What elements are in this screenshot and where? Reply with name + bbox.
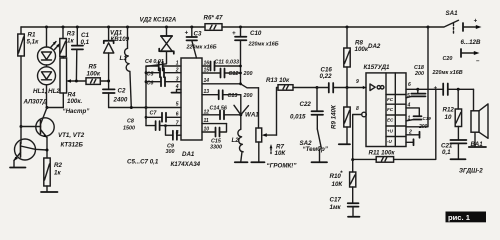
- ground R7: [251, 161, 264, 163]
- ground C17: [348, 216, 360, 218]
- capacitor C10: [232, 26, 279, 84]
- svg-text:С2: С2: [118, 88, 126, 95]
- svg-text:+: +: [185, 30, 189, 37]
- capacitor C20: [432, 56, 474, 95]
- wire tank to DA1 pin5: [109, 107, 181, 109]
- svg-text:КВ109: КВ109: [111, 36, 130, 43]
- capacitor C15: [202, 124, 227, 151]
- capacitor C17: [330, 197, 359, 217]
- resistor R5: [86, 64, 109, 85]
- svg-text:0,22: 0,22: [320, 73, 333, 80]
- capacitor C11: [202, 60, 242, 71]
- feedback wire R11 to output: [394, 89, 436, 159]
- node VT1 emitter / VT2 collector / R2: [46, 149, 49, 152]
- svg-text:9: 9: [356, 79, 359, 85]
- wire top supply bus: [21, 26, 428, 28]
- svg-text:–: –: [476, 58, 480, 65]
- svg-text:+: +: [474, 18, 478, 25]
- svg-text:DА1: DА1: [182, 151, 195, 158]
- wire C4-C8 left bus: [145, 66, 147, 125]
- potentiometer R7: [256, 88, 286, 162]
- node C20 output: [457, 88, 460, 91]
- svg-text:6...12В: 6...12В: [461, 39, 481, 46]
- wire DA1 pin14 to R7 top: [202, 84, 259, 88]
- transistor VT1: [36, 118, 54, 158]
- svg-text:С3: С3: [194, 31, 202, 38]
- svg-text:47: 47: [215, 15, 223, 22]
- resistor R1: [18, 27, 39, 127]
- svg-text:1500: 1500: [123, 126, 135, 132]
- svg-text:С1: С1: [81, 32, 89, 39]
- svg-text:10К: 10К: [275, 150, 287, 157]
- svg-text:2: 2: [175, 68, 179, 74]
- switch SA2: [300, 129, 329, 162]
- transistor VT2: [14, 139, 47, 167]
- svg-text:220мк х16Б: 220мк х16Б: [248, 42, 279, 48]
- resistor R9: [331, 88, 351, 144]
- svg-text:200: 200: [243, 71, 253, 77]
- zener VD2: [140, 17, 177, 67]
- switch SA1: [428, 10, 459, 35]
- pin numbers DA1 right: [204, 61, 210, 133]
- capacitor C7: [145, 111, 181, 122]
- svg-text:R12: R12: [443, 107, 455, 114]
- varicap VD1: [104, 26, 130, 90]
- svg-text:2400: 2400: [113, 97, 128, 104]
- svg-text:С22: С22: [300, 101, 312, 108]
- ground R2: [41, 191, 58, 193]
- op-amp symbol DA2: [370, 84, 384, 91]
- svg-text:200: 200: [414, 71, 424, 77]
- svg-text:R2: R2: [54, 162, 62, 169]
- speaker BA1: [471, 89, 489, 148]
- ground SA2: [312, 161, 328, 163]
- svg-text:К157УД1: К157УД1: [364, 64, 391, 71]
- svg-text:200: 200: [243, 93, 253, 99]
- pin -U DA2: [406, 139, 414, 145]
- capacitor C8: [123, 119, 181, 132]
- wire VT1 base: [21, 126, 41, 128]
- capacitor C21: [441, 140, 466, 159]
- wire node to R4 bottom: [47, 107, 63, 109]
- svg-text:R13 10к: R13 10к: [266, 77, 290, 84]
- antenna WA1: [234, 105, 259, 118]
- svg-text:FС: FС: [387, 97, 394, 102]
- svg-text:+: +: [232, 30, 236, 37]
- svg-text:“Настр”: “Настр”: [63, 108, 91, 115]
- svg-text:R11 100к: R11 100к: [369, 150, 396, 157]
- svg-text:14: 14: [204, 78, 210, 84]
- svg-text:+U: +U: [387, 128, 394, 133]
- svg-text:С17: С17: [330, 197, 342, 204]
- svg-text:R6*: R6*: [204, 15, 215, 22]
- svg-text:С14 56: С14 56: [210, 106, 228, 112]
- svg-text:0,015: 0,015: [290, 114, 306, 121]
- svg-text:0,1: 0,1: [442, 149, 451, 156]
- capacitor C19: [406, 103, 431, 131]
- resistor R13: [266, 77, 317, 90]
- svg-text:R5: R5: [89, 64, 97, 71]
- capacitor C9: [164, 124, 181, 155]
- ground C21: [451, 158, 466, 160]
- svg-text:4: 4: [175, 84, 179, 90]
- svg-text:С5: С5: [147, 72, 155, 78]
- svg-text:1: 1: [176, 61, 179, 67]
- svg-text:VТ1, VТ2: VТ1, VТ2: [58, 132, 85, 139]
- svg-text:С5...С7 0,1: С5...С7 0,1: [127, 159, 159, 166]
- pin 8 DA2: [353, 106, 367, 160]
- svg-text:1: 1: [408, 116, 411, 122]
- svg-text:R9 140К: R9 140К: [331, 104, 338, 129]
- pin 2 DA2: [406, 130, 420, 138]
- svg-text:1к: 1к: [67, 38, 74, 45]
- capacitor C13: [202, 90, 253, 99]
- pin 6 DA2 output: [406, 82, 443, 91]
- svg-text:DА2: DА2: [368, 43, 381, 50]
- IC DA2 box: [366, 73, 406, 147]
- svg-text:ЕС: ЕС: [387, 118, 394, 123]
- svg-text:L1: L1: [120, 55, 128, 62]
- svg-text:С20: С20: [443, 56, 453, 62]
- node R4 wiper / C1 / R5: [75, 80, 78, 83]
- svg-text:FС: FС: [387, 107, 394, 112]
- svg-text:100к.: 100к.: [67, 98, 82, 105]
- svg-text:С4 0,01: С4 0,01: [145, 59, 164, 65]
- resistor R2: [44, 158, 63, 192]
- resistor R11: [353, 150, 396, 163]
- capacitor C12: [202, 69, 253, 78]
- svg-text:“ГРОМК!”: “ГРОМК!”: [267, 163, 298, 170]
- svg-text:5,1к: 5,1к: [27, 39, 40, 46]
- resistor R10: [330, 160, 356, 204]
- svg-text:КТ312Б: КТ312Б: [61, 142, 84, 149]
- svg-text:L2: L2: [232, 137, 240, 144]
- svg-text:100к: 100к: [87, 71, 101, 78]
- LED HL2: [38, 65, 56, 108]
- svg-text:300: 300: [166, 149, 175, 155]
- svg-text:1к: 1к: [54, 170, 61, 177]
- svg-text:С19: С19: [423, 116, 432, 121]
- svg-text:АЛ307Д: АЛ307Д: [23, 99, 48, 106]
- svg-text:10К: 10К: [332, 181, 344, 188]
- node R8/R9 on pin9 wire: [346, 86, 349, 89]
- svg-text:С8: С8: [127, 119, 134, 125]
- svg-text:3: 3: [176, 77, 179, 83]
- svg-text:К174ХА34: К174ХА34: [171, 161, 201, 168]
- battery plus terminal: [463, 18, 482, 32]
- node LED/R4/VT1 collector: [46, 106, 49, 109]
- svg-text:7: 7: [176, 121, 179, 127]
- svg-text:8: 8: [176, 130, 179, 136]
- svg-text:10: 10: [445, 114, 452, 121]
- svg-text:R3: R3: [67, 31, 75, 38]
- svg-text:R1: R1: [28, 32, 36, 39]
- ground VT2 emitter: [10, 167, 26, 169]
- capacitor C18: [406, 65, 426, 99]
- svg-text:3300: 3300: [210, 145, 222, 151]
- pin numbers DA1 left: [175, 61, 179, 136]
- wire VT2 base drop: [20, 127, 22, 144]
- battery minus terminal: [461, 49, 480, 65]
- capacitor C1: [72, 26, 90, 82]
- svg-text:ЗГДШ-2: ЗГДШ-2: [459, 168, 483, 175]
- svg-text:1мк: 1мк: [330, 204, 342, 211]
- inductor L1: [120, 26, 132, 108]
- wire VT1 collector: [41, 108, 47, 124]
- svg-text:С6: С6: [147, 81, 155, 87]
- svg-text:WА1: WА1: [245, 112, 259, 119]
- svg-text:“Тембр”: “Тембр”: [303, 146, 329, 153]
- capacitor C5: [145, 68, 181, 77]
- svg-text:5: 5: [176, 102, 179, 108]
- node VD1 / R5 / C2: [107, 80, 110, 83]
- svg-text:VД2 КС162А: VД2 КС162А: [140, 17, 177, 24]
- ground DA1 pin4: [177, 90, 182, 93]
- svg-text:С11 0,033: С11 0,033: [215, 60, 239, 66]
- inductor L2: [232, 129, 244, 161]
- svg-text:С7: С7: [150, 111, 158, 117]
- svg-text:-U: -U: [387, 139, 392, 144]
- resistor R12: [443, 89, 462, 140]
- svg-text:100к: 100к: [355, 46, 369, 53]
- svg-text:С13: С13: [228, 93, 238, 99]
- svg-text:6: 6: [176, 112, 179, 118]
- svg-text:С12: С12: [229, 71, 239, 77]
- node R11 / R10 / pin8: [351, 158, 354, 161]
- svg-text:0,1: 0,1: [81, 39, 90, 46]
- capacitor C4: [145, 59, 181, 71]
- ground L2: [235, 161, 248, 163]
- capacitor C14: [202, 106, 241, 120]
- svg-text:С10: С10: [250, 30, 262, 37]
- resistor R6: [204, 15, 223, 31]
- pin 9 DA2: [356, 79, 366, 89]
- power wire to +U: [406, 27, 428, 127]
- svg-text:8: 8: [356, 106, 359, 112]
- svg-text:НL1, НL2: НL1, НL2: [33, 88, 60, 95]
- capacitor C2: [103, 88, 128, 108]
- figure label ris.1: [446, 212, 487, 223]
- wire antenna node vertical: [240, 95, 242, 130]
- capacitor C3: [185, 26, 217, 59]
- svg-text:220мк х16В: 220мк х16В: [432, 70, 463, 76]
- svg-text:220мк х16Б: 220мк х16Б: [186, 45, 217, 51]
- svg-text:рис. 1: рис. 1: [448, 213, 471, 222]
- IC DA1 box: [181, 58, 202, 140]
- capacitor C22: [290, 88, 323, 130]
- svg-text:6: 6: [408, 82, 411, 88]
- wire R7 wiper riser to R13: [277, 88, 279, 136]
- svg-text:SА1: SА1: [446, 10, 459, 17]
- potentiometer R4: [60, 57, 86, 108]
- LED HL1: [38, 26, 60, 66]
- ground BA1: [469, 146, 486, 148]
- resistor R8: [344, 26, 369, 88]
- ground R9: [339, 143, 350, 145]
- capacitor C16: [317, 66, 366, 92]
- capacitor C6: [145, 77, 181, 86]
- resistor R3: [60, 26, 75, 57]
- node R13 / C22 / C16: [316, 86, 319, 89]
- node R1/VT bases junction: [20, 125, 23, 128]
